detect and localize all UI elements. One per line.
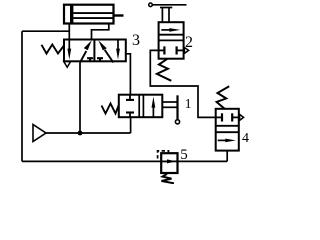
valve 4 blocked port left [216, 113, 222, 121]
valve 2 blocked port left [159, 46, 165, 54]
valve 3 left box blocked port T [87, 58, 93, 61]
valve 2 exhaust triangle [184, 47, 188, 53]
svg-text:4: 4 [242, 131, 249, 146]
valve 3 right box blocked port T [97, 58, 103, 61]
valve 2 body [159, 22, 184, 59]
wire valve 2 left port to valve 4 [150, 50, 215, 117]
wire valve3 P port down to junction [79, 61, 81, 133]
svg-text:1: 1 [185, 96, 192, 111]
wire bottom rail [22, 160, 227, 162]
svg-text:5: 5 [180, 147, 188, 163]
valve 3 right box diagonal arrow [98, 40, 113, 62]
wire valve3 right port to valve1 top [126, 54, 131, 95]
wire source to valve1 bottom [130, 117, 132, 133]
valve 3 divider [93, 40, 95, 62]
svg-text:2: 2 [185, 34, 193, 51]
valve 2 stem T bar [160, 7, 172, 9]
valve 3 spring [42, 45, 65, 54]
valve 1 blocked T bottom [126, 113, 134, 118]
valve 1 roller circle [175, 120, 179, 124]
valve 3 body [64, 40, 126, 62]
valve 3 exhaust triangle [64, 61, 71, 67]
valve 2 inner dividers [159, 34, 184, 36]
cylinder piston [70, 5, 73, 24]
valve 2 roller circle [149, 3, 153, 7]
valve 4 blocked port right [232, 113, 239, 121]
source triangle [33, 125, 46, 142]
valve 1 roller actuator stem [162, 101, 177, 103]
valve 4 body [216, 109, 239, 151]
cylinder rod bottom line [73, 17, 113, 19]
svg-text:3: 3 [132, 32, 140, 49]
junction dot [78, 131, 83, 136]
valve 2 stem lines [161, 8, 163, 23]
valve 4 bottom box arrow [218, 139, 236, 143]
valve 1 inner dividers [138, 95, 140, 118]
wire bottom rail to valve 4 [226, 151, 228, 162]
valve 4 exhaust triangle [240, 114, 244, 120]
valve 1 spring [102, 104, 119, 114]
valve 1 blocked T top [126, 95, 134, 100]
valve 3 right box down arrow [116, 40, 120, 60]
wire rod-side jog [92, 24, 109, 40]
cylinder rod stub [114, 14, 124, 16]
wire cap-side port down [68, 24, 70, 40]
valve 2 top box arrow [161, 28, 180, 32]
cylinder body [64, 5, 114, 24]
comp 5 arrow [163, 159, 177, 163]
valve 4 inner dividers [216, 125, 239, 127]
wire source line [46, 132, 131, 134]
valve 1 roller bar [176, 95, 178, 119]
valve 2 blocked port right [177, 46, 184, 54]
valve 3 left box down arrow [67, 40, 71, 60]
valve 1 up arrow [152, 97, 156, 118]
comp 5 pilot dashed [158, 151, 169, 159]
valve 3 left box diagonal arrow [80, 40, 92, 62]
valve 1 body [119, 95, 163, 118]
valve 2 spring [157, 59, 171, 81]
wire left rail vertical [21, 31, 23, 161]
valve 4 spring top [217, 86, 230, 109]
comp 5 spring [162, 174, 175, 184]
valve 2 roller lever line [153, 4, 187, 6]
cylinder rod top line [73, 12, 113, 14]
comp 5 box [161, 153, 177, 173]
wire left rail horizontal top [22, 30, 69, 32]
